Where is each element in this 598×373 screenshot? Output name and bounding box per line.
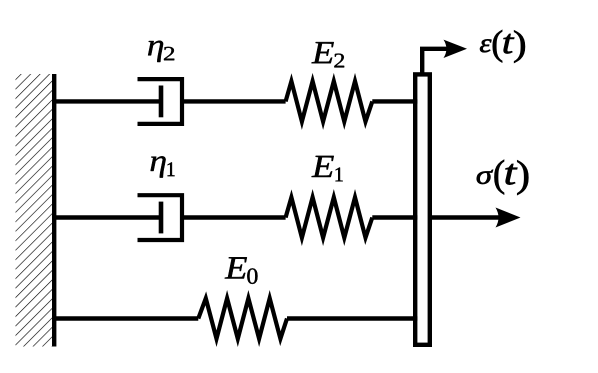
spring E0: [198, 298, 287, 338]
wire: wall to dashpot eta2 piston: [52, 99, 163, 103]
wire: spring E0 to bar: [287, 316, 417, 320]
label E2: [312, 42, 345, 67]
spring E2: [286, 81, 373, 121]
spring E1: [286, 197, 373, 237]
label eta2: [148, 41, 174, 62]
stress arrow sigma(t) shaft right of bar: [428, 215, 499, 219]
dashpot eta2: [138, 79, 183, 124]
rigid bar: [415, 74, 430, 344]
label eta1: [151, 156, 175, 177]
wire: spring E1 through bar (sigma shaft): [372, 215, 417, 219]
label epsilon(t): [480, 30, 525, 63]
wire: spring E2 to bar: [372, 99, 417, 103]
wall line: [52, 74, 56, 347]
wall hatching: [16, 74, 53, 347]
wire: wall to spring E0: [52, 316, 198, 320]
dashpot eta1: [138, 195, 183, 240]
label E0: [225, 257, 258, 284]
strain arrow epsilon(t) head: [444, 40, 468, 58]
label sigma(t): [477, 160, 529, 195]
stress arrow sigma(t) head: [496, 208, 521, 228]
wire: dashpot eta1 to spring E1: [184, 215, 286, 219]
label E1: [312, 156, 343, 181]
strain arrow epsilon(t) shaft: [422, 49, 447, 76]
wire: dashpot eta2 to spring E2: [184, 99, 286, 103]
wire: wall to dashpot eta1 piston: [52, 215, 163, 219]
